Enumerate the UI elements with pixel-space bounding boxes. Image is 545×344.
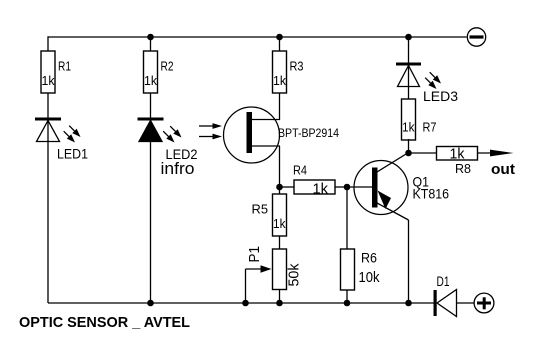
junction emitter / bottom rail [405, 300, 412, 307]
resistor R1 [41, 51, 71, 93]
svg-text:1k: 1k [450, 145, 465, 162]
terminal minus [467, 28, 485, 46]
junction R6 / bottom rail [344, 300, 351, 307]
junction wiper / bottom rail [242, 300, 249, 307]
wire R3 column [279, 36, 281, 51]
resistor R8 [437, 145, 478, 176]
resistor R4 [293, 163, 335, 198]
wire base junction to Q1 [347, 186, 372, 188]
resistor R5 [252, 187, 287, 236]
svg-text:KT816: KT816 [413, 186, 450, 202]
wire to R4 [280, 186, 295, 188]
wire phototransistor emitter down [279, 146, 281, 187]
resistor R6 [341, 249, 380, 290]
wire R8 to out arrow [478, 152, 497, 154]
resistor R7 [402, 99, 437, 140]
wire R1 to bottom rail [47, 93, 49, 303]
svg-text:OPTIC SENSOR _ AVTEL: OPTIC SENSOR _ AVTEL [19, 314, 190, 331]
wire P1 to bottom rail [279, 289, 281, 303]
svg-text:R3: R3 [290, 59, 304, 74]
svg-text:50k: 50k [286, 263, 303, 286]
svg-text:R8: R8 [455, 161, 471, 176]
wire R7 to collector junction [408, 139, 410, 153]
transistor Q1 KT816 [354, 153, 449, 221]
svg-text:R4: R4 [293, 163, 307, 178]
wire R2 to bottom rail [150, 93, 152, 303]
LED LED2 (infrared, filled) [138, 118, 198, 179]
svg-text:10k: 10k [359, 269, 380, 286]
wire LED3 to R7 [408, 66, 410, 100]
svg-text:1k: 1k [42, 73, 55, 88]
wire top rail [48, 36, 467, 38]
wire R4 to base junction [335, 186, 347, 188]
svg-text:1k: 1k [273, 216, 286, 231]
svg-text:out: out [491, 161, 515, 178]
wire D1 to plus terminal [457, 302, 475, 304]
wire bottom rail [48, 302, 434, 304]
svg-text:R7: R7 [423, 120, 437, 135]
svg-text:D1: D1 [437, 273, 450, 289]
resistor R2 [144, 51, 174, 93]
wire junction to R8 [409, 152, 437, 154]
junction node R4/base/R6 [344, 184, 351, 191]
junction P1 / bottom rail [276, 300, 283, 307]
svg-text:1k: 1k [273, 73, 286, 88]
wire R6 to bottom rail [346, 290, 348, 303]
potentiometer P1 50k [247, 246, 303, 290]
LED LED1 [35, 118, 88, 162]
svg-text:infro: infro [161, 159, 195, 178]
svg-text:1k: 1k [402, 120, 415, 135]
wire R3 to phototransistor collector [279, 93, 281, 120]
diode D1 [434, 273, 457, 317]
LED LED3 [396, 63, 458, 105]
junction top rail / R2 [147, 34, 154, 41]
node out arrow [490, 150, 514, 157]
junction bottom rail / R2 column [147, 300, 154, 307]
wire P1 wiper [246, 265, 272, 303]
wire R2 column [150, 36, 152, 51]
svg-text:BPT-BP2914: BPT-BP2914 [278, 126, 339, 140]
svg-text:LED1: LED1 [57, 146, 88, 162]
svg-text:R1: R1 [58, 59, 71, 74]
phototransistor U1 BPT-BP2914 [199, 107, 339, 163]
wire R1 column [47, 36, 49, 51]
junction node emitter/R4/R5 [276, 184, 283, 191]
svg-text:R2: R2 [161, 59, 174, 74]
svg-text:1k: 1k [144, 73, 157, 88]
svg-text:LED3: LED3 [423, 88, 458, 104]
svg-text:1k: 1k [313, 180, 329, 197]
wire R5 to P1 [279, 236, 281, 249]
junction top rail / R3 [276, 34, 283, 41]
wire LED3 column [408, 36, 410, 63]
svg-text:R6: R6 [361, 250, 377, 266]
svg-text:P1: P1 [247, 246, 263, 263]
wire base junction to R6 [346, 187, 348, 249]
terminal plus [474, 293, 494, 313]
resistor R3 [273, 51, 304, 93]
svg-text:R5: R5 [252, 202, 269, 217]
wire Q1 emitter to bottom rail [408, 220, 410, 303]
junction collector/R7/R8 [405, 150, 412, 157]
junction top rail / LED3 [405, 34, 412, 41]
